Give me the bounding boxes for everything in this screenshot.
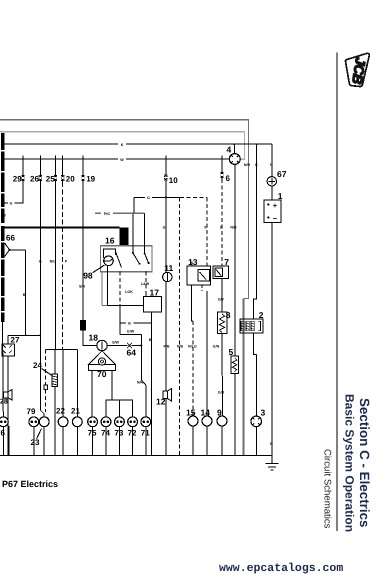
svg-text:B: B <box>23 293 26 297</box>
svg-text:G/Y: G/Y <box>218 298 225 302</box>
svg-text:66: 66 <box>6 234 15 243</box>
svg-text:67: 67 <box>277 169 287 179</box>
svg-text:98: 98 <box>83 271 93 281</box>
svg-text:1: 1 <box>278 191 283 201</box>
svg-text:24: 24 <box>33 361 42 370</box>
svg-text:17: 17 <box>150 288 160 298</box>
svg-text:G: G <box>163 226 166 230</box>
svg-text:Circuit Schematics: Circuit Schematics <box>322 449 333 529</box>
svg-text:79: 79 <box>27 407 36 416</box>
svg-text:76: 76 <box>0 429 5 438</box>
svg-text:21: 21 <box>71 407 80 416</box>
svg-text:−: − <box>273 214 278 223</box>
svg-text:N/R: N/R <box>244 163 251 167</box>
svg-text:12: 12 <box>156 397 166 407</box>
svg-text:3: 3 <box>261 408 266 418</box>
svg-text:R/LG: R/LG <box>188 344 197 348</box>
svg-text:N/O: N/O <box>50 260 57 264</box>
svg-text:K: K <box>255 163 258 167</box>
svg-text:W: W <box>120 158 124 162</box>
svg-text:+: + <box>273 201 278 210</box>
svg-text:29: 29 <box>13 175 22 184</box>
svg-text:K: K <box>270 163 273 167</box>
svg-text:2: 2 <box>259 310 264 320</box>
svg-text:P67 Electrics: P67 Electrics <box>2 479 58 489</box>
svg-text:64: 64 <box>127 348 137 358</box>
svg-text:G/N: G/N <box>213 344 220 348</box>
svg-text:Basic System Operation: Basic System Operation <box>343 394 357 532</box>
svg-text:22: 22 <box>56 407 65 416</box>
svg-text:K: K <box>121 143 124 147</box>
svg-text:B: B <box>149 338 152 342</box>
svg-text:8: 8 <box>226 310 231 320</box>
svg-text:G/W: G/W <box>127 330 135 334</box>
svg-text:26: 26 <box>30 175 39 184</box>
svg-text:13: 13 <box>188 257 198 267</box>
svg-text:6: 6 <box>226 174 231 183</box>
svg-text:23: 23 <box>31 438 40 447</box>
svg-text:/Y: /Y <box>3 214 7 218</box>
svg-text:www.epcatalogs.com: www.epcatalogs.com <box>219 562 343 575</box>
svg-text:10: 10 <box>169 176 178 185</box>
svg-text:G/B: G/B <box>218 391 225 395</box>
svg-text:25: 25 <box>46 175 55 184</box>
svg-text:LGK: LGK <box>125 290 133 294</box>
svg-text:G: G <box>10 202 13 206</box>
svg-text:L&W: L&W <box>141 282 150 286</box>
svg-text:B: B <box>270 442 273 446</box>
svg-text:S/R: S/R <box>79 285 85 289</box>
svg-text:N/R: N/R <box>230 226 237 230</box>
svg-text:18: 18 <box>89 333 99 343</box>
svg-text:P/G: P/G <box>104 212 110 216</box>
svg-text:19: 19 <box>86 175 95 184</box>
svg-text:Section C - Electrics: Section C - Electrics <box>357 398 372 528</box>
svg-text:16: 16 <box>105 236 115 246</box>
svg-text:G: G <box>39 260 42 264</box>
svg-text:20: 20 <box>66 175 75 184</box>
svg-text:B: B <box>128 322 131 326</box>
svg-text:5: 5 <box>229 347 234 357</box>
svg-text:G: G <box>147 196 150 200</box>
svg-text:S/W: S/W <box>112 341 119 345</box>
svg-text:11: 11 <box>164 263 173 273</box>
svg-text:28: 28 <box>0 399 8 406</box>
svg-text:7: 7 <box>224 257 229 267</box>
svg-text:4: 4 <box>227 145 232 155</box>
svg-text:P/B: P/B <box>164 344 170 348</box>
svg-text:70: 70 <box>97 369 107 379</box>
svg-text:N/B: N/B <box>177 344 184 348</box>
svg-text:27: 27 <box>11 336 20 345</box>
